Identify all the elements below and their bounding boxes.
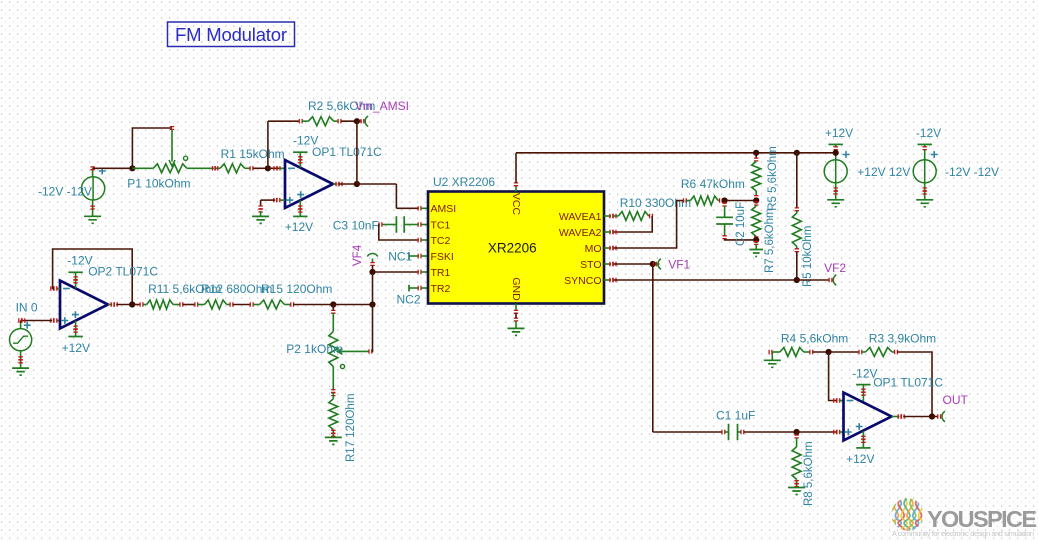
svg-text:A community for electronic des: A community for electronic design and si…	[892, 529, 1034, 538]
svg-text:P2 1kOhm: P2 1kOhm	[286, 342, 343, 356]
svg-text:VF2: VF2	[824, 261, 846, 275]
svg-text:-12V -12V: -12V -12V	[945, 165, 999, 179]
svg-text:VF4: VF4	[352, 244, 364, 266]
svg-text:WAVEA2: WAVEA2	[559, 227, 602, 239]
svg-text:XR2206: XR2206	[488, 241, 537, 256]
svg-text:AMSI: AMSI	[431, 203, 457, 215]
svg-text:WAVEA1: WAVEA1	[559, 211, 602, 223]
svg-text:R10 330Ohm: R10 330Ohm	[620, 196, 691, 210]
svg-text:STO: STO	[580, 259, 601, 271]
svg-text:OP1 TL071C: OP1 TL071C	[312, 145, 382, 159]
svg-text:MO: MO	[585, 243, 602, 255]
svg-text:TC1: TC1	[431, 219, 451, 231]
svg-text:+12V 12V: +12V 12V	[857, 165, 910, 179]
svg-text:R1 15kOhm: R1 15kOhm	[221, 147, 285, 161]
svg-text:GND: GND	[510, 277, 522, 301]
svg-text:OP2 TL071C: OP2 TL071C	[88, 265, 158, 279]
svg-text:VCC: VCC	[510, 193, 522, 216]
svg-text:C2 10uF: C2 10uF	[735, 202, 747, 246]
svg-text:C3 10nF: C3 10nF	[333, 219, 379, 233]
svg-text:OUT: OUT	[943, 393, 969, 407]
svg-text:R7 5,6kOhm: R7 5,6kOhm	[764, 208, 776, 273]
svg-text:+12V: +12V	[285, 220, 313, 234]
svg-text:-12V: -12V	[916, 126, 941, 140]
svg-text:OP1 TL071C: OP1 TL071C	[873, 376, 943, 390]
svg-text:FM Modulator: FM Modulator	[175, 24, 287, 45]
svg-text:VF1: VF1	[668, 258, 690, 272]
svg-text:TC2: TC2	[431, 235, 451, 247]
svg-text:+12V: +12V	[825, 126, 853, 140]
svg-text:R15 120Ohm: R15 120Ohm	[261, 282, 332, 296]
svg-text:FSKI: FSKI	[431, 251, 454, 263]
svg-text:C1 1uF: C1 1uF	[716, 409, 755, 423]
svg-text:Vm_AMSI: Vm_AMSI	[355, 99, 409, 113]
svg-text:-12V -12V: -12V -12V	[38, 185, 92, 199]
svg-text:R4 5,6kOhm: R4 5,6kOhm	[781, 332, 848, 346]
svg-text:NC2: NC2	[397, 293, 421, 307]
svg-text:P1 10kOhm: P1 10kOhm	[127, 177, 190, 191]
svg-text:+12V: +12V	[62, 341, 90, 355]
svg-text:R5 10kOhm: R5 10kOhm	[802, 226, 814, 287]
svg-text:IN 0: IN 0	[16, 301, 38, 315]
svg-text:+12V: +12V	[846, 452, 874, 466]
svg-text:TR2: TR2	[431, 283, 451, 295]
svg-text:R3 3,9kOhm: R3 3,9kOhm	[869, 332, 936, 346]
svg-text:SYNCO: SYNCO	[564, 275, 601, 287]
svg-text:NC1: NC1	[388, 250, 412, 264]
svg-text:R6 47kOhm: R6 47kOhm	[681, 177, 745, 191]
svg-text:R5 5,6kOhm: R5 5,6kOhm	[767, 146, 779, 211]
svg-text:U2 XR2206: U2 XR2206	[433, 175, 495, 189]
svg-text:R8 5,6kOhm: R8 5,6kOhm	[803, 441, 815, 506]
svg-text:R17 120Ohm: R17 120Ohm	[345, 394, 357, 462]
svg-text:TR1: TR1	[431, 267, 451, 279]
